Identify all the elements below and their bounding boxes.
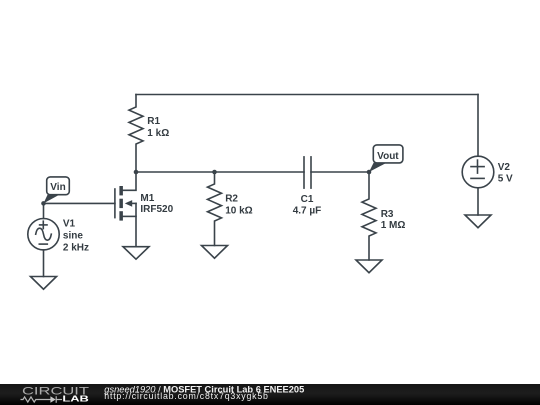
svg-text:C1: C1: [301, 194, 314, 205]
svg-text:V2: V2: [498, 162, 511, 173]
svg-text:Vout: Vout: [377, 151, 399, 162]
svg-text:1 kΩ: 1 kΩ: [147, 128, 169, 139]
svg-text:http://circuitlab.com/c8tx7q3x: http://circuitlab.com/c8tx7q3xygk5b: [104, 391, 268, 401]
svg-text:Vin: Vin: [50, 182, 65, 193]
svg-text:10 kΩ: 10 kΩ: [225, 206, 252, 217]
svg-text:R1: R1: [147, 116, 160, 127]
svg-text:M1: M1: [140, 193, 154, 204]
svg-text:IRF520: IRF520: [140, 204, 173, 215]
svg-text:R3: R3: [381, 209, 394, 220]
svg-text:4.7 µF: 4.7 µF: [293, 206, 322, 217]
svg-text:5 V: 5 V: [498, 173, 513, 184]
svg-text:LAB: LAB: [62, 395, 89, 404]
svg-text:1 MΩ: 1 MΩ: [381, 220, 406, 231]
svg-text:2 kHz: 2 kHz: [63, 243, 89, 254]
svg-text:sine: sine: [63, 231, 83, 242]
svg-text:V1: V1: [63, 218, 76, 229]
svg-text:R2: R2: [225, 194, 238, 205]
